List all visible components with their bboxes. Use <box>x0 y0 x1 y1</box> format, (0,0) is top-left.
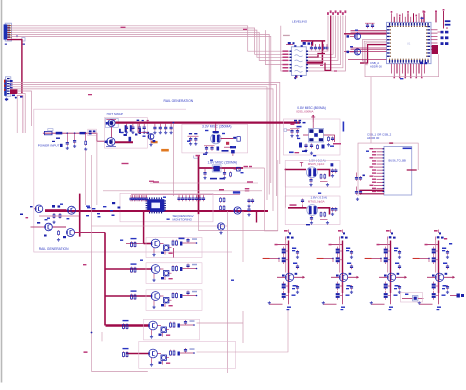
svg-text:ADDR 00: ADDR 00 <box>370 64 382 68</box>
cap in 1V8B <box>301 199 304 208</box>
bus stub <box>115 141 133 143</box>
monitor row 2 Q12 <box>106 263 198 281</box>
wire net long2 <box>11 85 277 196</box>
power input chain F1 D1 <box>43 129 86 135</box>
wire pair2 out <box>75 232 106 234</box>
filter FB1 <box>88 129 97 135</box>
section box bottom rows <box>92 225 228 227</box>
ground <box>5 98 8 101</box>
bus drop seq <box>256 211 258 223</box>
monitor row 3 Q13 <box>106 290 198 308</box>
bus vertical 1V8 <box>198 156 200 214</box>
svg-text:RAIL GENERATION: RAIL GENERATION <box>39 247 69 251</box>
mosfet Q7 <box>34 205 43 213</box>
net label on bundle <box>121 27 248 30</box>
svg-text:3.3V MISC (350MA): 3.3V MISC (350MA) <box>202 125 232 129</box>
power flag 0V8 <box>311 115 315 129</box>
wire net d <box>17 94 25 134</box>
level shifter U2 <box>290 45 309 77</box>
section box BUS6 <box>358 143 418 196</box>
vin bus 12V <box>116 121 301 123</box>
wire to hotswap <box>85 133 105 141</box>
caps U4 <box>203 168 231 179</box>
bus riser crimson <box>325 16 331 71</box>
net label 1V8B <box>290 204 297 206</box>
mosfet Q8 <box>68 206 76 214</box>
section box 3V3 <box>182 124 248 153</box>
parts above U2 right <box>303 42 313 45</box>
wire drop mid <box>173 122 175 196</box>
parts right U1 r1 <box>438 31 449 34</box>
section box row3 <box>146 290 202 311</box>
misc vert b <box>91 155 93 250</box>
wire vert pale bl <box>91 250 93 372</box>
label 1V8 module <box>208 161 238 165</box>
net dash b <box>334 70 337 71</box>
top parts <box>231 150 235 156</box>
wire net long <box>11 82 280 164</box>
wire seq upper2 <box>103 189 262 191</box>
block BUS6_TO_BB <box>384 147 412 196</box>
bus 1V5 in <box>285 169 307 171</box>
label RAIL GENERATION bottom <box>39 247 69 251</box>
ic U8 sequencer <box>146 197 166 213</box>
svg-text:LEVELING: LEVELING <box>292 19 308 23</box>
section box rail generation <box>34 109 232 252</box>
inductor L1 <box>224 146 236 148</box>
res stack right seq <box>220 197 225 211</box>
bus 1V8B in <box>288 207 307 209</box>
caps below U7 <box>306 216 313 225</box>
riser right2 <box>423 11 425 23</box>
bus stub BUS6 <box>359 190 384 194</box>
tiny parts <box>52 138 63 148</box>
caps left U3 <box>188 133 199 145</box>
scattered net labels <box>88 94 299 182</box>
ic U1 left wires <box>344 30 387 64</box>
monitor column 4 Q19 <box>413 230 455 311</box>
junction dot <box>15 97 17 99</box>
ic U1 bottom wires <box>392 64 425 79</box>
j2 extra parts <box>5 80 23 100</box>
regulator U6 <box>306 167 317 178</box>
capacitor row seq right <box>177 195 205 201</box>
section box row1 <box>146 238 202 258</box>
label LEVELING <box>292 19 308 23</box>
monitor column 1 Q16 <box>263 230 305 311</box>
wire enable a <box>277 160 279 231</box>
regulator U3 <box>211 122 234 144</box>
net labels U2 left <box>283 50 289 71</box>
wire right tall <box>242 211 244 262</box>
svg-text:HOT SWAP: HOT SWAP <box>107 112 123 116</box>
window frame left edge <box>1 0 3 383</box>
caps left BUS6 <box>355 173 365 201</box>
riser right <box>435 11 437 23</box>
transistor Q2b <box>138 132 155 146</box>
caps right seq <box>247 199 254 217</box>
junction <box>91 332 93 334</box>
wire row3 out <box>197 311 244 343</box>
bus vert left <box>79 194 81 237</box>
svg-text:0035_600MA: 0035_600MA <box>296 110 313 114</box>
capacitor C3 <box>73 133 76 148</box>
label HOT SWAP <box>107 112 123 116</box>
tiny labels rail <box>86 206 113 217</box>
section box 1V8B <box>285 196 340 225</box>
label CSB1 <box>367 133 392 140</box>
net labels risers <box>327 10 346 15</box>
net label column vert <box>343 122 345 132</box>
section box hot swap <box>105 118 148 149</box>
capacitor bank vin B <box>153 124 172 134</box>
seq left parts <box>112 202 121 216</box>
wire bottom pale2 <box>101 332 103 341</box>
bus junctions <box>294 120 306 124</box>
parts pair2 <box>20 206 66 241</box>
label 1V8 note <box>233 191 240 193</box>
wire bus J1 to J2 <box>7 40 22 94</box>
capacitor row seq left <box>131 195 148 201</box>
caps row rail <box>129 195 146 201</box>
bus 1V8 pale cont <box>243 167 265 169</box>
regulator U5 <box>303 129 331 143</box>
transistor Q6 <box>217 223 224 234</box>
wire seq net top <box>150 181 258 183</box>
bus thick U2 e <box>308 54 325 58</box>
caps left U5 <box>284 124 302 138</box>
capacitor C1 <box>21 38 26 41</box>
section box CSB <box>365 54 439 76</box>
caps below U6 <box>309 178 312 186</box>
bus 1V8B out <box>318 208 330 215</box>
wire fan U2 to top labels <box>308 16 345 72</box>
bus drop row0 <box>143 212 145 244</box>
wire net b <box>11 89 273 211</box>
monitor column 3 Q18 <box>365 230 407 311</box>
pin label 2 <box>23 44 25 45</box>
label 1V8B module <box>308 196 327 204</box>
net stub <box>83 264 88 353</box>
label C mini <box>297 138 300 139</box>
connector J2 <box>4 77 11 96</box>
regulator U4 <box>212 165 221 172</box>
bus seq upper <box>131 194 240 196</box>
wire row4 out <box>197 310 289 352</box>
bus 1V8 <box>199 167 244 169</box>
bus thick U2 d <box>312 41 314 46</box>
caps below U3 <box>204 146 219 155</box>
wire net a <box>11 87 267 200</box>
wire enable c <box>284 170 286 208</box>
ic U1 right wires <box>431 30 438 50</box>
rail pair gate wire <box>39 216 80 219</box>
ic U1 pins <box>387 23 430 63</box>
extra stub col4 top <box>444 238 452 245</box>
regulator U7 <box>307 205 318 216</box>
capacitor row above U2 <box>310 44 329 50</box>
label POWER INPUT <box>38 144 60 148</box>
parts above U2 left <box>286 42 295 45</box>
wire net c <box>17 91 32 126</box>
resistor R2 <box>84 133 87 151</box>
label 0V8 module <box>296 106 326 114</box>
transistor Q5 <box>232 207 242 214</box>
mosfet Q2 <box>105 138 116 147</box>
wire top BUS6 <box>370 77 372 143</box>
gnd U7 <box>320 220 329 225</box>
ic U1 top wires <box>391 11 426 22</box>
feedback parts <box>203 150 229 155</box>
wire bottom pale <box>92 371 148 373</box>
pin label 1 <box>5 44 7 45</box>
label SEQ <box>173 214 194 222</box>
wire drop col1 <box>227 211 229 373</box>
parts right U3 <box>220 137 240 145</box>
connector J1 <box>4 23 12 41</box>
junction dot <box>16 35 18 37</box>
svg-text:BUS6_TO_BB: BUS6_TO_BB <box>389 159 406 163</box>
parts right U1 r2 <box>441 36 449 39</box>
wire link 1v8 enable <box>199 214 278 230</box>
section box seq <box>120 193 213 222</box>
resistor R3 <box>125 125 132 132</box>
wire link hotswap rail <box>96 141 98 205</box>
bus pair1 <box>45 209 150 212</box>
parts under Q2 <box>124 129 142 141</box>
corner flag <box>194 155 200 158</box>
power flag 1V5 <box>300 163 303 167</box>
svg-text:MTU5_Np5A: MTU5_Np5A <box>308 200 325 204</box>
monitor row 1 Q11 <box>131 238 198 256</box>
mosfet Q9 <box>45 223 53 231</box>
ic U1 body <box>387 22 432 63</box>
section box row4 <box>144 319 200 340</box>
bus ticks <box>137 120 149 122</box>
block pins BUS6 <box>370 148 385 192</box>
net label small <box>283 35 290 36</box>
parts right U5 <box>327 135 335 147</box>
label RAIL GENERATION top <box>164 99 194 103</box>
parts pair1 <box>52 205 61 224</box>
labels net <box>245 188 250 191</box>
capacitor bank vin A <box>125 124 146 134</box>
wire drop q <box>137 124 139 133</box>
section box 0V8 <box>283 119 340 155</box>
net dash csb <box>360 62 364 64</box>
svg-text:MONITORING: MONITORING <box>173 218 193 222</box>
svg-text:U1: U1 <box>407 42 411 46</box>
parts below U5 <box>289 143 325 155</box>
wire bundle J1 to leveler <box>11 26 291 195</box>
mosfet Q10 <box>67 229 75 237</box>
svg-text:1.8V MISC (150MA): 1.8V MISC (150MA) <box>208 161 238 165</box>
transistor Q3 <box>347 32 361 39</box>
monitor column 2 Q17 <box>317 230 359 311</box>
gate resistor <box>119 129 121 133</box>
net dash BUS6 top <box>389 142 393 144</box>
label 3V3 module <box>202 125 232 129</box>
monitor row 4 Q14 <box>106 320 195 338</box>
label 1V5 module <box>308 158 326 166</box>
label right edge <box>333 143 341 145</box>
section box row2 <box>146 263 202 284</box>
bus thick U2 a <box>301 40 325 42</box>
label DNI orange <box>151 141 169 152</box>
mosfet Q1 <box>105 118 118 127</box>
net dash right <box>407 169 417 171</box>
bus thick U2 b <box>321 41 323 63</box>
extra part col3 <box>401 293 424 303</box>
section box row5 <box>139 341 236 368</box>
part X1 <box>234 167 241 171</box>
wire net e <box>17 96 23 134</box>
svg-text:RAIL GENERATION: RAIL GENERATION <box>164 99 194 103</box>
monitor row 5 Q15 <box>123 348 195 366</box>
parts below U1 <box>420 62 427 65</box>
bus pair2 <box>31 226 67 228</box>
tiny designator labels <box>45 18 424 281</box>
wire U2 bottom <box>294 75 297 79</box>
wire enable b <box>265 168 278 231</box>
misc vert a <box>85 150 87 205</box>
bus thick U2 c <box>307 61 324 63</box>
label 1V8 small <box>179 237 185 239</box>
wire drop row0 right <box>173 248 175 258</box>
parts top right corner <box>443 9 451 29</box>
capacitor pair top <box>365 23 375 28</box>
power bus stub <box>10 89 18 133</box>
net block solid <box>432 45 438 54</box>
hot swap bus link <box>111 127 113 138</box>
bus seq main <box>45 210 268 212</box>
transistor Q4 <box>347 48 361 55</box>
bus vert bottom left <box>104 233 106 326</box>
svg-text:POWER INPUT: POWER INPUT <box>38 144 60 148</box>
wire row0 left <box>126 243 151 245</box>
parts right U6 <box>320 163 337 179</box>
svg-text:MSU5_Np10: MSU5_Np10 <box>308 162 325 166</box>
label CSB_A <box>370 61 382 68</box>
extra part col4 <box>450 294 464 298</box>
parts right U1 r3 <box>441 42 449 45</box>
net dash a <box>320 65 323 66</box>
labels net2 <box>244 166 253 167</box>
parts right U7 <box>320 207 337 217</box>
svg-text:ADDR 00: ADDR 00 <box>367 136 380 140</box>
gnd U6 <box>320 182 329 187</box>
section box 1V5 <box>285 161 340 188</box>
capacitor C2 <box>66 133 69 150</box>
bus 1V5 out <box>317 170 329 177</box>
